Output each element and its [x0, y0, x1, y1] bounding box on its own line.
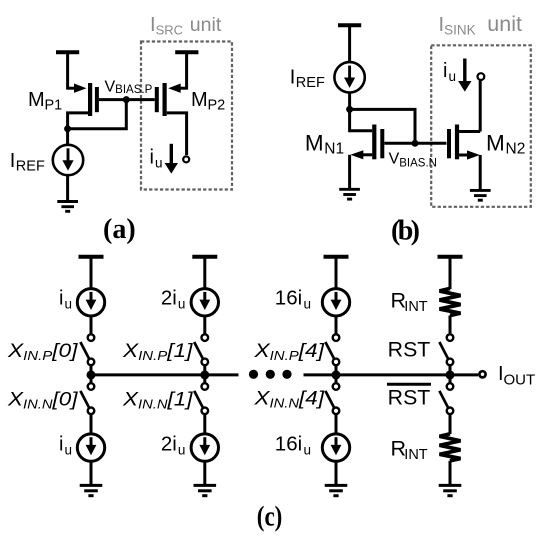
svg-text:i: i — [443, 60, 447, 82]
wire IREF to ground (a) — [66, 175, 69, 201]
label 16iu top column 3 — [275, 287, 311, 312]
supply rail T (a) left — [56, 52, 79, 89]
node VBIAS.P dot — [123, 96, 130, 103]
svg-text:N2: N2 — [506, 141, 526, 158]
ground (b) MN2 — [470, 190, 491, 200]
supply rail T (a) right — [175, 52, 198, 89]
label MP2 — [191, 89, 225, 114]
svg-text:M: M — [191, 89, 208, 111]
wire resistor to ground column 4 — [449, 461, 452, 486]
current source 16iu top column 3 — [322, 289, 349, 316]
ground column 2 — [194, 485, 217, 495]
arrow iu (a) — [165, 144, 178, 174]
node VBIAS.N dot — [412, 140, 419, 147]
current source iu bottom column 1 — [77, 434, 104, 461]
current source IREF (a) — [53, 145, 83, 175]
wire output bus left segment — [91, 373, 239, 376]
svg-text:REF: REF — [296, 75, 325, 91]
ground column 4 — [439, 485, 462, 495]
svg-text:2i: 2i — [161, 287, 177, 310]
wire switch to cs column 1 bottom — [90, 414, 93, 434]
svg-text:16i: 16i — [275, 287, 302, 310]
switch XIN.P[1] — [194, 334, 208, 365]
svg-text:unit: unit — [190, 14, 222, 36]
resistor RINT top — [440, 289, 461, 316]
terminal IOUT open circle — [479, 371, 485, 377]
switch XIN.N[1] — [194, 383, 208, 414]
label MP1 — [28, 89, 62, 114]
label RSTB with overline — [387, 384, 431, 409]
wire switch to resistor column 4 bottom — [449, 414, 452, 434]
label 16iu bottom column 3 — [275, 433, 311, 458]
svg-text:P2: P2 — [208, 98, 226, 114]
wire switch to cs column 3 bottom — [335, 414, 338, 434]
label XIN.P[1] — [122, 341, 194, 363]
supply rail T column 3 — [324, 257, 349, 289]
svg-text:i: i — [59, 288, 63, 310]
current source 2iu bottom column 2 — [191, 434, 218, 461]
label 2iu top column 2 — [161, 287, 186, 312]
label MN1 — [305, 130, 344, 157]
wire diode connection (b) — [350, 109, 415, 143]
switch XIN.P[4] — [325, 334, 339, 365]
label VBIAS.P — [105, 78, 153, 96]
label XIN.P[0] — [7, 341, 79, 363]
wire MP1 drain down to IREF — [68, 113, 88, 146]
supply rail T column 2 — [192, 257, 217, 289]
svg-text:i: i — [59, 434, 63, 456]
svg-text:u: u — [65, 442, 73, 457]
current source 16iu bottom column 3 — [322, 434, 349, 461]
ground column 1 — [80, 485, 103, 495]
svg-text:I: I — [10, 150, 16, 172]
transistor MP2 — [157, 83, 187, 116]
label ISINK unit — [439, 12, 522, 38]
node bus dots ellipsis — [249, 370, 292, 379]
terminal iu open circle (b) — [478, 73, 485, 80]
svg-text:u: u — [449, 69, 457, 84]
svg-text:RST: RST — [388, 386, 431, 409]
terminal iu open circle (a) — [183, 156, 189, 162]
resistor RINT bottom — [440, 434, 461, 461]
label XIN.N[1] — [122, 389, 194, 411]
node bus junction column 1 — [87, 370, 96, 379]
label IREF (b) — [290, 66, 325, 91]
wire cs to ground column 2 — [203, 461, 206, 485]
svg-text:u: u — [304, 296, 312, 311]
ground (b) MN1 — [339, 189, 360, 199]
switch XIN.P[0] — [80, 334, 94, 365]
dashed box ISINK unit — [431, 45, 531, 207]
svg-text:OUT: OUT — [504, 371, 536, 388]
wire switch to bus column 1 — [90, 365, 93, 384]
ground column 3 — [325, 485, 348, 495]
transistor MN1 — [350, 125, 383, 190]
supply rail T column 4 — [438, 257, 463, 289]
wire switch to cs column 2 bottom — [203, 414, 206, 434]
current source 2iu top column 2 — [191, 289, 218, 316]
svg-text:u: u — [155, 156, 163, 171]
wire MN2 drain up to terminal — [479, 80, 482, 131]
wire cs to ground column 3 — [335, 461, 338, 485]
svg-text:I: I — [290, 66, 296, 88]
svg-text:u: u — [304, 442, 312, 457]
label MN2 — [486, 130, 525, 157]
svg-text:u: u — [178, 296, 186, 311]
wire MN1 gate to MN2 gate — [384, 142, 446, 145]
svg-text:(a): (a) — [103, 214, 136, 245]
wire MP2 drain to output terminal — [167, 113, 187, 155]
svg-text:N1: N1 — [324, 141, 344, 158]
wire cs to ground column 1 — [90, 461, 93, 485]
label VBIAS.N — [389, 151, 437, 170]
label iu top column 1 — [59, 288, 72, 312]
wire switch to bus column 2 — [203, 365, 206, 384]
dashed box ISRC unit — [141, 42, 232, 190]
svg-text:(b): (b) — [391, 216, 420, 247]
label XIN.N[0] — [7, 389, 79, 411]
svg-text:INT: INT — [404, 447, 428, 463]
transistor MP1 — [68, 83, 97, 116]
supply rail T column 1 — [79, 257, 104, 289]
label iu (a) — [150, 147, 163, 171]
label (c) — [257, 502, 283, 533]
transistor MN2 — [449, 125, 480, 191]
node bus junction column 3 — [332, 370, 341, 379]
svg-text:i: i — [150, 147, 154, 169]
wire switch to bus column 4 — [449, 365, 452, 384]
label iu bottom column 1 — [59, 434, 72, 458]
svg-text:u: u — [178, 442, 186, 457]
svg-text:REF: REF — [16, 159, 45, 175]
node drain junction dot — [64, 125, 71, 132]
current source IREF (b) — [334, 62, 364, 92]
wire MP1 gate to MP2 gate — [99, 98, 155, 101]
supply rail T (b) — [338, 25, 361, 62]
svg-text:M: M — [486, 130, 505, 155]
svg-text:unit: unit — [487, 12, 522, 36]
switch XIN.N[0] — [80, 383, 94, 414]
svg-text:16i: 16i — [275, 433, 302, 456]
label IOUT — [498, 363, 535, 388]
wire cs1 to switch XIN.P[0] — [90, 316, 93, 334]
label (b) — [391, 216, 420, 247]
ground (a) — [57, 202, 78, 212]
svg-text:M: M — [28, 89, 45, 111]
label ISRC unit — [150, 14, 222, 38]
wire diode connection (drain to gate) — [68, 100, 127, 129]
svg-text:INT: INT — [404, 299, 428, 315]
node bus junction column 4 — [446, 370, 455, 379]
label XIN.P[4] — [253, 341, 325, 363]
svg-text:2i: 2i — [161, 433, 177, 456]
label RINT bottom — [391, 436, 428, 463]
current source iu top column 1 — [77, 289, 104, 316]
label iu (b) — [443, 60, 456, 84]
svg-text:RST: RST — [388, 338, 431, 361]
switch RSTB — [439, 383, 453, 414]
wire switch to bus column 3 — [335, 365, 338, 384]
label IREF (a) — [10, 150, 45, 175]
node bus junction column 2 — [200, 370, 209, 379]
svg-text:M: M — [305, 130, 324, 155]
svg-text:(c): (c) — [257, 502, 283, 533]
label XIN.N[4] — [253, 388, 325, 410]
label RINT top — [391, 288, 428, 315]
label 2iu bottom column 2 — [161, 433, 186, 458]
wire IREF to MN1 drain — [348, 93, 351, 133]
label RST — [388, 338, 431, 361]
switch XIN.N[4] — [325, 383, 339, 414]
node IREF junction dot — [346, 106, 353, 113]
wire resistor to switch RST — [449, 316, 452, 335]
switch RST — [439, 334, 453, 365]
label (a) — [103, 214, 136, 245]
wire cs to switch column 3 — [335, 316, 338, 334]
svg-text:u: u — [65, 296, 73, 311]
wire output bus right segment — [304, 373, 479, 376]
arrow iu (b) — [458, 59, 471, 92]
wire cs to switch column 2 — [203, 316, 206, 334]
svg-text:P1: P1 — [45, 98, 63, 114]
